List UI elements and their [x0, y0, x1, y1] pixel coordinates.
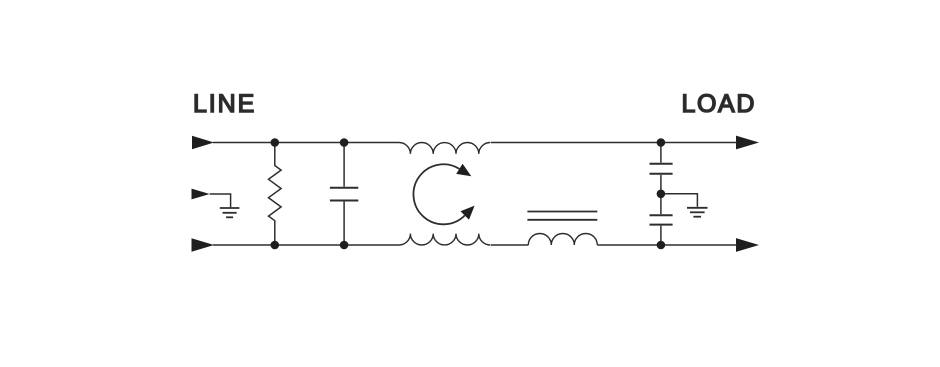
- wire: bottom rail left segment: [213, 244, 399, 246]
- chassis ground (load side): [687, 208, 708, 217]
- capacitor C2 (Y-cap top): [650, 143, 673, 194]
- node: bottom rail / R1: [271, 241, 280, 250]
- svg-text:LINE: LINE: [193, 90, 256, 118]
- wire: top rail left segment: [213, 142, 399, 144]
- inductor L1b (common-mode choke bottom winding): [399, 234, 490, 245]
- node: C2-C3 midpoint / ground: [657, 190, 666, 199]
- core bars of inductor L2: [527, 212, 597, 220]
- line terminal arrow bottom (N): [192, 238, 215, 252]
- wire: load ground lead: [661, 194, 698, 207]
- wire: bottom rail right segment: [597, 244, 737, 246]
- load terminal arrow top: [736, 136, 759, 150]
- resistor R1 (discharge resistor): [268, 143, 281, 246]
- capacitor C3 (Y-cap bottom): [650, 194, 673, 245]
- capacitor C1 (X-cap line to line): [330, 143, 358, 246]
- wire: top rail right segment: [491, 142, 737, 144]
- chassis ground (line side): [220, 208, 240, 217]
- svg-text:LOAD: LOAD: [682, 90, 756, 118]
- node: top rail / C1: [340, 138, 349, 147]
- circulating-flux arrow of common-mode choke: [413, 164, 474, 225]
- inductor L2 (differential-mode): [528, 234, 597, 246]
- wire: line ground lead: [210, 194, 231, 208]
- node: bottom rail / C1: [340, 241, 349, 250]
- node: bottom rail / C3: [657, 241, 666, 250]
- inductor L1a (common-mode choke top winding): [399, 143, 490, 154]
- wire: bottom rail middle segment: [491, 244, 529, 246]
- line terminal arrow middle (ground lead): [192, 189, 210, 200]
- load terminal arrow bottom: [736, 238, 759, 252]
- line terminal arrow top (L): [192, 136, 214, 150]
- node: top rail / R1: [271, 138, 280, 147]
- node: top rail / C2: [657, 138, 666, 147]
